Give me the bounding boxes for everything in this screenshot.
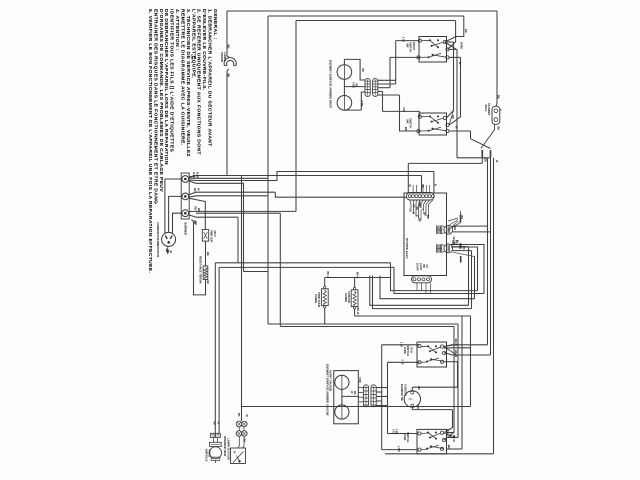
svg-text:BK-O: BK-O bbox=[356, 272, 359, 278]
svg-text:DOOR: DOOR bbox=[416, 263, 419, 271]
svg-text:RY/PWR ELEC: RY/PWR ELEC bbox=[405, 238, 409, 260]
svg-text:Y-R: Y-R bbox=[402, 107, 406, 112]
svg-text:BK: BK bbox=[212, 422, 215, 426]
svg-text:OR: OR bbox=[423, 212, 426, 216]
svg-text:2. SE REFERER UNIQUEMENT AUX F: 2. SE REFERER UNIQUEMENT AUX FONCTIONS D… bbox=[196, 9, 202, 155]
svg-text:BK: BK bbox=[409, 209, 412, 213]
svg-text:RD: RD bbox=[353, 391, 356, 395]
svg-text:BK: BK bbox=[497, 95, 501, 99]
svg-text:REMETTRE LE DIAGRAMME AVEC LA: REMETTRE LE DIAGRAMME AVEC LA CUISINIERE… bbox=[180, 9, 186, 146]
svg-text:R-BK: R-BK bbox=[192, 172, 196, 179]
svg-text:1. DEBRANCHER L'APPAREIL DU SE: 1. DEBRANCHER L'APPAREIL DU SECTEUR AVAN… bbox=[207, 9, 213, 147]
svg-text:Y-BK: Y-BK bbox=[358, 377, 361, 383]
svg-text:RD: RD bbox=[464, 29, 468, 33]
svg-text:DE DEBRANCHER L'APPAREIL LORS: DE DEBRANCHER L'APPAREIL LORS DE LA REPA… bbox=[163, 9, 169, 165]
svg-text:BK: BK bbox=[497, 127, 501, 131]
svg-text:Y-BK: Y-BK bbox=[394, 429, 397, 435]
svg-text:RD: RD bbox=[462, 246, 465, 250]
svg-text:Y-BK: Y-BK bbox=[459, 243, 462, 249]
svg-text:BK: BK bbox=[417, 386, 421, 390]
svg-text:LAMPE: LAMPE bbox=[223, 52, 227, 61]
svg-text:LOCK: LOCK bbox=[419, 263, 422, 270]
svg-text:LAMPE DU FOUR: LAMPE DU FOUR bbox=[226, 438, 230, 460]
svg-text:RD-W: RD-W bbox=[454, 339, 458, 347]
svg-text:CUISSON: CUISSON bbox=[403, 384, 407, 396]
svg-text:W-BK: W-BK bbox=[459, 42, 463, 49]
svg-text:Y-BK: Y-BK bbox=[360, 101, 363, 107]
svg-text:BR: BR bbox=[426, 215, 429, 219]
svg-text:R: R bbox=[414, 215, 417, 217]
svg-text:GCH: GCH bbox=[409, 347, 413, 353]
svg-text:GY: GY bbox=[425, 265, 428, 269]
svg-text:7 10: 7 10 bbox=[401, 359, 405, 365]
svg-text:BORNIER: BORNIER bbox=[183, 223, 187, 235]
svg-text:R: R bbox=[434, 184, 437, 186]
svg-text:Y-BK: Y-BK bbox=[351, 82, 354, 88]
svg-text:BK: BK bbox=[242, 439, 245, 443]
svg-text:BK: BK bbox=[193, 188, 197, 192]
svg-text:ENTRAINER DES RISQUES DANS LE: ENTRAINER DES RISQUES DANS LE FONCTIONNE… bbox=[152, 9, 158, 204]
svg-text:IDENTIFIER TOUS LES FILS () L': IDENTIFIER TOUS LES FILS () L'AIDE D'ETI… bbox=[169, 9, 175, 152]
svg-text:RD: RD bbox=[355, 84, 358, 88]
svg-text:Y: Y bbox=[499, 109, 503, 111]
svg-text:NEUT: NEUT bbox=[418, 202, 421, 209]
svg-text:L'APPAREIL EST EQUIPE.: L'APPAREIL EST EQUIPE. bbox=[190, 9, 196, 79]
svg-text:20A BK: 20A BK bbox=[452, 237, 455, 246]
svg-text:BK-W: BK-W bbox=[454, 350, 458, 358]
svg-text:BK: BK bbox=[165, 249, 169, 253]
svg-text:BR: BR bbox=[404, 127, 408, 131]
svg-text:3 10: 3 10 bbox=[392, 429, 395, 434]
svg-text:BK: BK bbox=[206, 281, 210, 285]
svg-text:D'ENLEVER LE COUVRE-FILS.: D'ENLEVER LE COUVRE-FILS. bbox=[201, 9, 207, 91]
svg-text:BK: BK bbox=[197, 208, 201, 212]
svg-text:D'ORGANES DE COMMANDE. LES PRO: D'ORGANES DE COMMANDE. LES PROBLEMES DE … bbox=[158, 9, 164, 192]
svg-text:1 10: 1 10 bbox=[400, 342, 404, 348]
svg-text:SWITCH: SWITCH bbox=[409, 118, 413, 128]
svg-text:1 10: 1 10 bbox=[402, 37, 406, 43]
svg-text:GENERAL :: GENERAL : bbox=[212, 9, 218, 40]
svg-text:AVANT GAUCHE: AVANT GAUCHE bbox=[329, 370, 333, 391]
svg-text:BK: BK bbox=[361, 69, 364, 73]
svg-text:BK: BK bbox=[422, 265, 425, 269]
svg-text:BK: BK bbox=[206, 252, 210, 256]
svg-text:BR: BR bbox=[447, 445, 451, 449]
svg-text:BLA: BLA bbox=[455, 240, 458, 245]
svg-text:BK: BK bbox=[421, 185, 424, 189]
svg-text:BK: BK bbox=[194, 222, 198, 226]
svg-text:CUISSON: CUISSON bbox=[347, 291, 351, 303]
svg-text:RD: RD bbox=[451, 115, 455, 119]
svg-text:BK: BK bbox=[484, 159, 487, 163]
svg-text:BK: BK bbox=[227, 74, 231, 78]
svg-text:BU: BU bbox=[415, 207, 418, 211]
svg-text:BK: BK bbox=[237, 413, 240, 417]
svg-text:GY: GY bbox=[412, 204, 415, 208]
svg-text:FOUR: FOUR bbox=[208, 450, 212, 457]
svg-text:BK: BK bbox=[417, 218, 420, 222]
svg-text:5. VERIFIER LE BON FONCTIONNEM: 5. VERIFIER LE BON FONCTIONNEMENT DE L'A… bbox=[147, 9, 153, 273]
svg-text:RD: RD bbox=[453, 227, 456, 231]
svg-text:STANDBY: STANDBY bbox=[487, 103, 491, 116]
svg-text:Y-R: Y-R bbox=[416, 405, 420, 409]
svg-text:RESISTANCE TEMOIN: RESISTANCE TEMOIN bbox=[199, 256, 203, 283]
svg-text:Y-BK: Y-BK bbox=[449, 432, 452, 438]
svg-text:3. TECHNICIEN DE SERVICE APRES: 3. TECHNICIEN DE SERVICE APRES-VENTE, VE… bbox=[185, 9, 191, 157]
svg-text:SWITCH: SWITCH bbox=[409, 42, 413, 52]
svg-text:4. ATTENTION :: 4. ATTENTION : bbox=[174, 9, 180, 51]
svg-text:DROIT: DROIT bbox=[412, 42, 416, 50]
svg-text:L-BK: L-BK bbox=[397, 446, 400, 452]
svg-text:ELEMENT SURFACE ARRIERE DROIT: ELEMENT SURFACE ARRIERE DROIT bbox=[328, 60, 332, 109]
svg-text:BK: BK bbox=[460, 216, 463, 220]
svg-text:CORDON D'ALIMENTATION: CORDON D'ALIMENTATION bbox=[156, 222, 160, 257]
svg-text:BK-W: BK-W bbox=[356, 308, 359, 315]
svg-text:BK-O: BK-O bbox=[326, 272, 329, 278]
svg-text:R-BK: R-BK bbox=[196, 172, 200, 179]
svg-text:RD-W: RD-W bbox=[445, 429, 448, 436]
svg-text:RD: RD bbox=[227, 45, 231, 49]
svg-text:120 V: 120 V bbox=[213, 230, 217, 237]
svg-text:BK-W: BK-W bbox=[452, 435, 455, 442]
svg-text:TEMP FOUR: TEMP FOUR bbox=[317, 292, 321, 307]
svg-text:SWITCH: SWITCH bbox=[406, 432, 410, 442]
